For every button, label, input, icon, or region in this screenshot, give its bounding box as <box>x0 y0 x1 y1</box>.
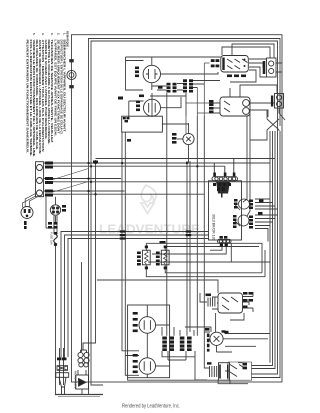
svg-text:MOTOR 120V: MOTOR 120V <box>74 371 78 389</box>
svg-text:FUSE 15A: FUSE 15A <box>50 232 54 245</box>
svg-text:3.: 3. <box>50 33 54 36</box>
svg-text:4.: 4. <box>41 33 45 36</box>
svg-text:5.: 5. <box>32 33 36 36</box>
svg-text:PEUVENT ENTRAINER UN FONCTIONN: PEUVENT ENTRAINER UN FONCTIONNEMENT DANG… <box>26 40 30 154</box>
svg-text:2.: 2. <box>56 33 60 36</box>
svg-text:3013 BK/OR 120: 3013 BK/OR 120 <box>212 214 216 241</box>
svg-text:Rendered by LeadVenture, Inc.: Rendered by LeadVenture, Inc. <box>122 404 180 410</box>
svg-text:LEADVENTURE: LEADVENTURE <box>99 223 200 237</box>
svg-text:1.: 1. <box>62 33 66 36</box>
